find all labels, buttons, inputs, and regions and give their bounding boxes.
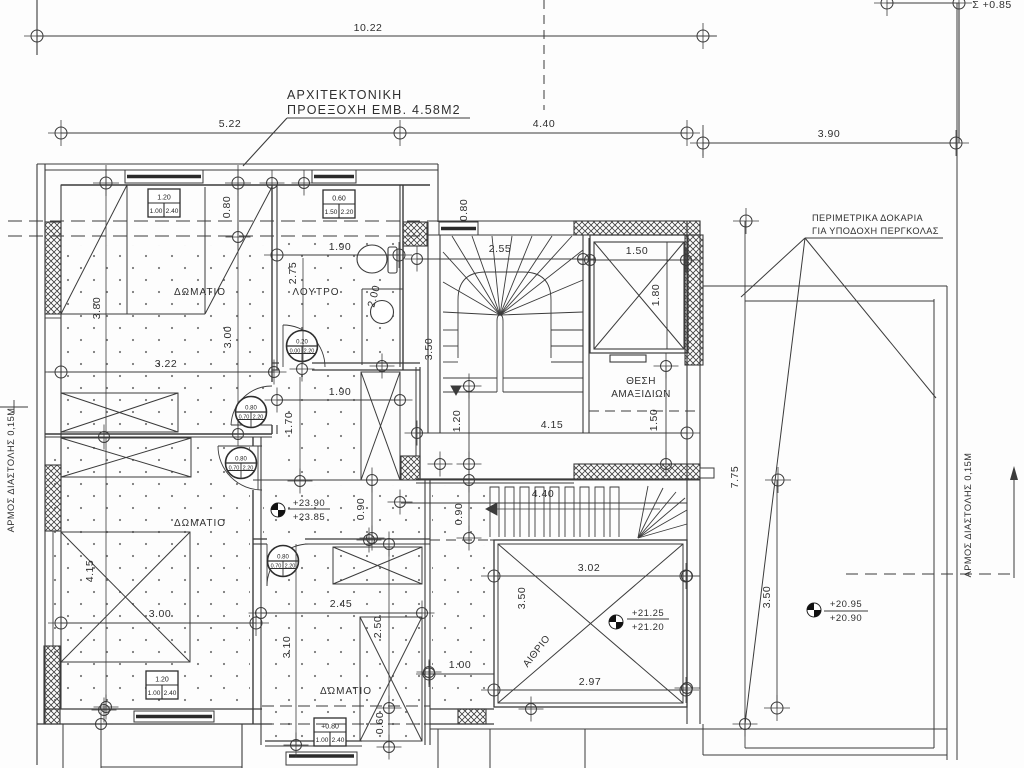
- dim end 4.40 right: [674, 120, 700, 146]
- window bedroom3 bottom: [286, 752, 357, 765]
- eave line top: [37, 163, 438, 165]
- bed bedroom2 diag b: [61, 532, 190, 662]
- svg-text:2.50: 2.50: [372, 616, 384, 638]
- svg-text:1.70: 1.70: [283, 412, 295, 434]
- grid line x106 lower: [105, 437, 107, 707]
- pergola leader 1: [741, 238, 805, 297]
- svg-text:2.40: 2.40: [166, 208, 179, 215]
- stair lower flight: [486, 486, 687, 540]
- top right line: [887, 2, 959, 4]
- wall between bedrooms a: [45, 433, 272, 435]
- svg-text:0.70: 0.70: [229, 466, 240, 472]
- window bottom 1.20: [134, 711, 214, 722]
- svg-text:1.20: 1.20: [155, 677, 169, 684]
- svg-text:1.00: 1.00: [316, 737, 329, 744]
- level underline hall: [288, 508, 330, 510]
- wall bathroom right outer: [402, 185, 404, 370]
- svg-text:ΠΕΡΙΜΕΤΡΙΚΑ ΔΟΚΑΡΙΑ: ΠΕΡΙΜΕΤΡΙΚΑ ΔΟΚΑΡΙΑ: [812, 213, 924, 223]
- dim line 2.55: [417, 258, 583, 260]
- circle hall left: [288, 469, 313, 494]
- dim 1.90 corr right: [388, 388, 413, 413]
- dim end 5.22 left: [48, 120, 74, 146]
- dim 0.80 top a: [225, 170, 251, 196]
- svg-text:4.15: 4.15: [541, 419, 563, 431]
- wall right outer x700: [699, 221, 701, 724]
- sill tick left 1: [45, 317, 61, 319]
- window label bottom 1.20: [146, 671, 178, 699]
- wall bathroom left b: [276, 425, 278, 434]
- dim 3.00 right: [243, 610, 269, 636]
- dim x469 c: [457, 468, 482, 493]
- glazing line left window: [52, 531, 54, 646]
- dim 2.55 left: [405, 247, 430, 272]
- sink: [371, 301, 394, 324]
- lower outline bottom left: [101, 766, 242, 768]
- lower outline vertical c: [489, 729, 491, 768]
- wall bedroom3 bottom a: [265, 740, 362, 742]
- dim 1.90 corr left: [265, 388, 290, 413]
- door2 knob: [226, 448, 257, 479]
- svg-text:2.20: 2.20: [243, 466, 254, 472]
- wall step right of top block: [437, 164, 439, 222]
- svg-text:ΔΩΜΑΤΙΟ: ΔΩΜΑΤΙΟ: [320, 686, 372, 697]
- svg-text:1.50: 1.50: [648, 409, 660, 431]
- sill tick left 3: [45, 433, 61, 435]
- wall bedroom3 right a: [424, 480, 426, 745]
- door1 knob: [236, 397, 267, 428]
- svg-text:4.40: 4.40: [533, 118, 555, 130]
- circle room2 bottom: [94, 695, 119, 720]
- hatch wall left middle: [45, 465, 61, 531]
- svg-text:2.40: 2.40: [332, 737, 345, 744]
- door3 leaf: [266, 544, 268, 586]
- wall left outer: [44, 164, 46, 724]
- bed bedroom3: [360, 617, 422, 741]
- stairwell right wall b: [588, 238, 590, 433]
- column X corridor: [361, 372, 400, 480]
- grid right vertical upper: [958, 3, 960, 143]
- svg-text:ΠΡΟΕΞΟΧΗ ΕΜΒ. 4.58Μ2: ΠΡΟΕΞΟΧΗ ΕΜΒ. 4.58Μ2: [287, 103, 461, 117]
- circle pergola mid: [765, 467, 791, 493]
- grid line x238 upper: [237, 165, 239, 237]
- eave line left: [36, 164, 38, 765]
- bath counter wall h: [362, 288, 403, 290]
- wall stair left lower: [419, 367, 421, 480]
- svg-text:3.50: 3.50: [516, 587, 528, 609]
- atrium diag a: [498, 544, 683, 703]
- dashed line bedroom3 b: [262, 723, 430, 725]
- floor dots corridor: [280, 373, 358, 478]
- dim 3.50 terrace bottom: [764, 695, 790, 721]
- svg-text:ΛΟΥΤΡΟ: ΛΟΥΤΡΟ: [292, 287, 339, 298]
- dim 3.22 left: [48, 359, 74, 385]
- svg-text:3.90: 3.90: [818, 128, 840, 140]
- dim chain x469: [468, 386, 470, 538]
- dim end 10.22 right: [690, 23, 716, 49]
- svg-text:0.80: 0.80: [245, 406, 257, 412]
- svg-text:1.90: 1.90: [329, 241, 351, 253]
- dim 1.90 bath right: [386, 242, 412, 268]
- dim line 1.90 bath: [277, 254, 399, 256]
- svg-text:2.75: 2.75: [287, 262, 299, 284]
- door2 closed leaf a: [257, 446, 259, 490]
- svg-text:2.97: 2.97: [579, 676, 601, 688]
- toilet: [357, 245, 397, 273]
- dim 1.00 left: [416, 661, 442, 687]
- svg-text:ΘΕΣΗ: ΘΕΣΗ: [626, 376, 656, 387]
- atrium diag b: [498, 544, 683, 703]
- dim line 3.90: [703, 142, 956, 144]
- svg-text:+21.25: +21.25: [632, 608, 664, 619]
- wall bedroom2 right b: [260, 437, 262, 745]
- wall y479: [416, 478, 574, 480]
- door2 closed leaf b: [260, 446, 262, 490]
- svg-text:0.60: 0.60: [374, 712, 386, 734]
- lower outline vertical left b: [100, 724, 102, 768]
- wall bath bottom b1: [272, 369, 279, 371]
- dim line 4.40: [400, 132, 687, 134]
- svg-text:0.90: 0.90: [355, 498, 367, 520]
- window label 1.20: [148, 189, 180, 217]
- dim line 3.22: [61, 371, 274, 373]
- terrace bottom outer: [703, 754, 947, 756]
- svg-text:0.80: 0.80: [277, 555, 289, 561]
- door4 arc: [283, 325, 325, 367]
- svg-text:2.20: 2.20: [304, 349, 315, 355]
- window stair top: [439, 222, 478, 235]
- svg-text:Σ +0.85: Σ +0.85: [972, 0, 1011, 11]
- svg-text:0.80: 0.80: [458, 199, 470, 221]
- hatch block corridor end: [401, 456, 420, 480]
- svg-text:2.45: 2.45: [330, 598, 352, 610]
- tick at 703: [702, 125, 704, 158]
- elevator shaft outer: [590, 235, 688, 353]
- svg-text:+0.80: +0.80: [321, 724, 339, 731]
- boundary line right: [956, 3, 958, 760]
- circle bottom wall: [92, 698, 117, 723]
- svg-text:0.70: 0.70: [239, 415, 250, 421]
- bed bedroom3 diag b: [360, 617, 422, 741]
- dim end elevator right: [674, 248, 699, 273]
- wall corridor left upper b: [271, 425, 273, 434]
- column X diag a: [361, 372, 400, 480]
- step right: [700, 468, 714, 478]
- circle x429: [417, 660, 442, 685]
- dim line 0.80 top: [237, 183, 239, 237]
- wall bottom strip a: [430, 708, 494, 710]
- floor dots strip1: [432, 485, 492, 538]
- wall bath bottom b2: [312, 369, 420, 371]
- dim 3.00 left: [48, 610, 74, 636]
- svg-text:10.22: 10.22: [354, 22, 383, 34]
- dim end 3.90 left: [690, 130, 716, 156]
- svg-text:7.75: 7.75: [729, 466, 741, 488]
- dim line 5.22: [61, 132, 400, 134]
- svg-text:+20.90: +20.90: [830, 613, 862, 624]
- window label 0.60: [323, 190, 355, 218]
- wardrobe X1 diag a: [61, 393, 178, 432]
- dashed parking left: [588, 367, 590, 411]
- svg-text:2.20: 2.20: [285, 564, 296, 570]
- dim 3.22 right: [262, 360, 287, 385]
- svg-text:3.00: 3.00: [222, 326, 234, 348]
- dim 4.15 left: [405, 421, 430, 446]
- wall right inner x687: [686, 221, 688, 724]
- door1 leaf: [231, 424, 272, 426]
- window top 0.60: [312, 170, 356, 183]
- svg-text:3.00: 3.00: [149, 608, 171, 620]
- dim end 10.22 left: [24, 23, 50, 49]
- hatch right wall band: [685, 235, 703, 365]
- wardrobe X2 diag b: [61, 438, 191, 477]
- elevator diag a: [594, 242, 684, 349]
- dim 1.90 bath left: [264, 242, 290, 268]
- dim line 3.02: [494, 575, 686, 577]
- dim parking bottom: [654, 452, 679, 477]
- svg-text:3.22: 3.22: [155, 358, 177, 370]
- svg-text:+23.90: +23.90: [293, 498, 325, 509]
- hatch corner block left of stair: [403, 222, 427, 246]
- dim line 2.50: [388, 544, 390, 747]
- wardrobe bedroom3 diag a: [333, 547, 422, 584]
- stair upper flight: [443, 236, 583, 395]
- svg-text:1.00: 1.00: [148, 690, 161, 697]
- wall bedroom3 right b: [429, 480, 431, 745]
- dim end elevator left: [578, 248, 603, 273]
- svg-text:1.90: 1.90: [329, 386, 351, 398]
- dim parking top: [654, 354, 679, 379]
- circle wardrobe3: [357, 528, 382, 553]
- dim line 10.22: [37, 35, 703, 37]
- grid circle 304: [292, 171, 317, 196]
- floor dots bathroom: [280, 240, 398, 362]
- callout underline: [287, 117, 470, 119]
- level marker atrium: [609, 615, 623, 629]
- door3 knob: [268, 546, 299, 577]
- bed bedroom2: [61, 532, 190, 662]
- svg-text:ΑΡΜΟΣ ΔΙΑΣΤΟΛΗΣ 0,15Μ: ΑΡΜΟΣ ΔΙΑΣΤΟΛΗΣ 0,15Μ: [963, 453, 973, 578]
- stair top wall inner: [427, 234, 574, 236]
- dim line 0.90 hall: [371, 480, 373, 538]
- wall bedroom3 top a2: [305, 538, 430, 540]
- dim 0.80 top b: [226, 225, 251, 250]
- circle house right b: [675, 676, 700, 701]
- wall bottom strip b: [430, 723, 494, 725]
- wall between bedrooms b: [45, 436, 272, 438]
- pergola leader 3: [745, 238, 805, 724]
- circle strip wall: [519, 697, 544, 722]
- dim x469 a: [457, 374, 482, 399]
- lower outline vertical left a: [62, 724, 64, 768]
- bed bedroom2 diag a: [61, 532, 190, 662]
- hall top line y480: [253, 479, 700, 481]
- floor dots bedroom3: [264, 547, 422, 739]
- dim line 4.40: [401, 502, 687, 504]
- svg-text:3.50: 3.50: [761, 586, 773, 608]
- dim 2.45 right: [410, 601, 435, 626]
- svg-text:+21.20: +21.20: [632, 622, 664, 633]
- elevator door: [610, 355, 646, 362]
- grid line x238: [237, 237, 239, 433]
- dim joint 5.22/4.40: [387, 120, 413, 146]
- arrowhead right: [1010, 466, 1018, 480]
- svg-text:1.00: 1.00: [449, 659, 471, 671]
- svg-text:1.20: 1.20: [451, 410, 463, 432]
- bath counter wall v: [361, 289, 363, 365]
- lower outline vertical b: [437, 729, 439, 768]
- wall corridor left upper: [271, 185, 273, 382]
- svg-text:1.00: 1.00: [150, 208, 163, 215]
- wall stair left lower b: [415, 367, 417, 456]
- svg-text:0.80: 0.80: [235, 457, 247, 463]
- dim line 3.10: [295, 544, 297, 745]
- dim line 1.70: [299, 377, 301, 481]
- door4 knob: [287, 331, 318, 362]
- wardrobe X2: [61, 438, 191, 477]
- arrow line right: [1013, 468, 1015, 578]
- wardrobe X2 diag a: [61, 438, 191, 477]
- bed bedroom3 diag a: [360, 617, 422, 741]
- elevator diag b: [594, 242, 684, 349]
- svg-text:1.20: 1.20: [157, 195, 171, 202]
- terrace right inner: [933, 299, 935, 748]
- dim line 2.75: [302, 258, 304, 363]
- top right circle a: [874, 0, 900, 16]
- hatch stair top wall: [574, 221, 700, 235]
- terrace bottom inner: [745, 747, 934, 749]
- atrium outer: [494, 540, 687, 707]
- svg-text:0.60: 0.60: [332, 196, 346, 203]
- dim 2.50 b: [377, 696, 402, 721]
- lower outline vertical d: [584, 729, 586, 768]
- svg-text:3.02: 3.02: [578, 562, 600, 574]
- door4 leaf: [282, 325, 284, 367]
- circle house right a: [675, 564, 700, 589]
- stair top wall outer: [427, 220, 574, 222]
- circle bath door: [290, 357, 315, 382]
- sill tick left 5: [45, 645, 61, 647]
- closet shelf line: [61, 313, 205, 315]
- dim line 1.50 parking: [665, 366, 667, 464]
- dim 0.60 b: [377, 735, 402, 760]
- wardrobe bedroom3 diag b: [333, 547, 422, 584]
- svg-text:1.80: 1.80: [650, 284, 662, 306]
- floor dots hall: [263, 485, 424, 538]
- dim 3.02 right: [673, 563, 699, 589]
- dim 2.55 right: [571, 247, 596, 272]
- dim line 2.45: [261, 612, 422, 614]
- floor dots bedroom2: [48, 440, 250, 706]
- dim line 1.80 elevator: [666, 242, 668, 349]
- dim 0.90 hall a: [360, 468, 385, 493]
- dim 2.97 left: [481, 677, 507, 703]
- svg-text:+23.85: +23.85: [293, 512, 325, 523]
- dim 3.02 left: [481, 563, 507, 589]
- dim x469 d: [457, 526, 482, 551]
- hatch wall left lower: [44, 646, 60, 724]
- wall y483: [416, 482, 574, 484]
- circle landing: [428, 452, 453, 477]
- dim 0.90 hall b: [360, 526, 385, 551]
- tick right of 10.22: [703, 35, 717, 37]
- circle pergola bottom: [733, 712, 758, 737]
- svg-text:3.50: 3.50: [423, 338, 435, 360]
- circle bottom wall b: [89, 712, 114, 737]
- floor dots bedroom1: [63, 245, 270, 431]
- column X diag b: [361, 372, 400, 480]
- svg-text:3.80: 3.80: [91, 297, 103, 319]
- atrium inner: [498, 544, 683, 703]
- svg-text:2.55: 2.55: [489, 243, 511, 255]
- dim end 3.90 right: [943, 130, 969, 156]
- terrace left lower: [702, 724, 704, 755]
- dim 2.45 left: [249, 601, 274, 626]
- svg-text:2.20: 2.20: [253, 415, 264, 421]
- wall bedroom2 right a1: [252, 437, 254, 446]
- grid circle 106: [93, 170, 119, 196]
- dashed beam line 2: [8, 235, 420, 237]
- wall bedroom3 top b2: [305, 543, 430, 545]
- wardrobe bedroom3: [333, 547, 422, 584]
- svg-text:1.50: 1.50: [626, 245, 648, 257]
- pergola underline: [805, 237, 943, 239]
- wall bedroom3 bottom b: [265, 745, 362, 747]
- level underline atrium: [627, 618, 669, 620]
- circle pergola top: [733, 208, 759, 234]
- stairwell left wall b: [439, 235, 441, 433]
- wall bottom inner left: [45, 708, 262, 710]
- top right circle b: [946, 0, 972, 16]
- circle room3 bottom: [284, 733, 309, 758]
- grid line x106: [105, 165, 107, 434]
- terrace top outer: [703, 285, 947, 287]
- stairwell left wall a: [427, 222, 429, 433]
- svg-text:ΔΩΜΑΤΙΟ: ΔΩΜΑΤΙΟ: [174, 518, 226, 529]
- dashed beam line 1: [8, 220, 420, 222]
- wardrobe X1 diag b: [61, 393, 178, 432]
- svg-text:4.40: 4.40: [532, 488, 554, 500]
- wall top outer: [45, 169, 438, 171]
- dim line 1.50 elevator: [590, 259, 686, 261]
- level marker hall: [271, 503, 285, 517]
- door1 arc: [231, 386, 272, 425]
- wall bedroom3 top a1: [253, 538, 267, 540]
- level underline terrace: [824, 610, 868, 612]
- level marker terrace: [807, 603, 821, 617]
- sill tick left 4: [45, 530, 61, 532]
- dim line 1.90 corridor: [277, 399, 400, 401]
- tick left margin: [0, 406, 28, 408]
- elevator shaft inner: [594, 242, 684, 349]
- svg-text:2.40: 2.40: [164, 690, 177, 697]
- dim 2.97 right: [673, 677, 699, 703]
- wall top inner: [61, 184, 430, 186]
- dashed armos right: [846, 573, 1014, 575]
- terrace top inner: [745, 300, 934, 302]
- callout leader: [243, 118, 287, 166]
- wardrobe X1: [61, 393, 178, 432]
- wall bottom outer left: [37, 723, 272, 725]
- wall bathroom right inner: [399, 185, 401, 367]
- wall bath bottom a2: [312, 362, 420, 364]
- hatch block bottom strip: [458, 709, 486, 724]
- dim line 1.00: [429, 673, 494, 675]
- grid circle 272: [260, 171, 285, 196]
- svg-text:+20.95: +20.95: [830, 599, 862, 610]
- terrace left inner / dim 7.75: [744, 221, 746, 748]
- circle hall right: [388, 490, 413, 515]
- lower outline horizontal right: [430, 728, 947, 730]
